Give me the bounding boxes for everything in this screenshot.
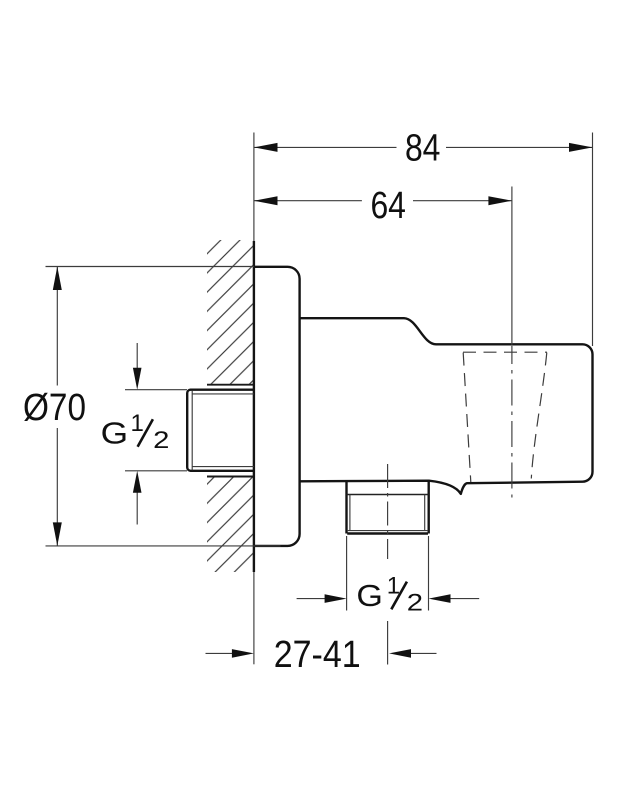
holder cone hidden top edge (463, 351, 547, 353)
extension line 84/64 left (above wall) (253, 133, 255, 242)
svg-text:G: G (356, 578, 383, 612)
dimension G1/2 bottom extension left (346, 536, 348, 611)
outlet nipple chamfer line (347, 530, 428, 532)
outlet nipple thread root left (349, 495, 351, 531)
dimension D70 arrow bottom (53, 522, 62, 546)
outlet nipple shoulder line (347, 494, 429, 496)
outlet centre line extension for 27-41 (387, 621, 389, 665)
dimension 64 arrow left (254, 196, 278, 205)
wall hole edge lower (207, 476, 254, 478)
dimension D70 line upper segment (56, 267, 58, 386)
outlet nipple bottom edge (347, 532, 428, 534)
outlet centre line (dash-dot) (387, 464, 389, 559)
body outline (300, 318, 593, 494)
dimension G1/2 left extension top (125, 389, 187, 391)
svg-text:Ø70: Ø70 (23, 387, 86, 429)
extension line 84 right (592, 133, 594, 347)
wall surface line (253, 241, 255, 572)
wall hatching lower (207, 477, 254, 573)
supply nipple G1/2 outline (187, 390, 254, 471)
dimension 64 arrow right (488, 196, 512, 205)
supply nipple thread face line (191, 390, 193, 470)
dimension 64 line right segment (413, 200, 512, 202)
svg-text:2: 2 (153, 427, 169, 454)
dimension D70 extension bottom (46, 545, 281, 547)
dimension G1/2 bottom arrow right (450, 598, 480, 600)
supply nipple thread root bottom (192, 466, 254, 468)
dimension 64 line left segment (254, 200, 362, 202)
dimension 84 arrow left (254, 143, 278, 152)
outlet nipple right edge (428, 481, 430, 534)
dimension 27-41 arrow left (206, 652, 234, 654)
wall hatching upper (207, 240, 254, 385)
outlet nipple left edge (345, 481, 347, 534)
dimension G1/2 bottom arrow left (297, 598, 326, 600)
svg-text:84: 84 (405, 128, 441, 170)
dimension 84 line left segment (254, 146, 397, 148)
dimension G1/2 left extension bottom (125, 470, 187, 472)
wall hole edge upper (207, 384, 254, 386)
dimension D70 extension top (46, 266, 255, 268)
flange outline (254, 267, 300, 546)
dimension G1/2 bottom extension right (428, 536, 430, 611)
holder cone hidden right edge (531, 353, 547, 479)
dimension 27-41 arrow right (410, 652, 437, 654)
dimension G1/2 left arrow top (136, 343, 138, 369)
holder centre line lower (dash-dot) (511, 346, 513, 498)
supply nipple thread root top (192, 393, 254, 395)
holder centre line upper (64 extension) (511, 187, 513, 346)
dimension 84 arrow right (569, 143, 593, 152)
svg-text:2: 2 (407, 589, 423, 616)
svg-text:64: 64 (370, 185, 406, 227)
dimension D70 arrow top (53, 267, 62, 291)
svg-text:27-41: 27-41 (274, 634, 361, 676)
extension line 27-41 left (below wall) (253, 572, 255, 664)
outlet nipple thread root right (424, 495, 426, 531)
dimension 84 line right segment (446, 146, 593, 148)
holder cone hidden left edge (463, 353, 471, 482)
svg-text:1: 1 (131, 410, 144, 437)
dimension G1/2 left arrow bottom (136, 492, 138, 525)
svg-text:G: G (101, 417, 128, 452)
dimension D70 line lower segment (56, 428, 58, 546)
